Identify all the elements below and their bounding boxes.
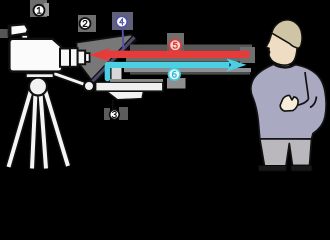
- camera body: [9, 39, 62, 72]
- monitor stand: [107, 91, 144, 100]
- monitor: [96, 82, 164, 91]
- viewfinder eyecup: [8, 25, 12, 38]
- leader line label 4: [122, 27, 125, 50]
- right shoe: [291, 165, 312, 171]
- viewfinder tube: [10, 24, 28, 36]
- elbow line: [310, 97, 317, 108]
- label 4: [116, 16, 127, 27]
- arm sleeve line: [305, 72, 309, 99]
- lens barrel: [78, 51, 86, 65]
- tripod head: [29, 78, 47, 96]
- knob: [84, 81, 94, 91]
- red light arrow (subject to camera), label 5 path: [89, 48, 249, 62]
- artifact gray at left edge near eyepiece: [0, 29, 8, 38]
- left shoe: [259, 166, 287, 172]
- tripod leg outer-left: [9, 90, 32, 167]
- artifact block near label 2: [78, 15, 96, 32]
- artifact block around label 6: [167, 78, 186, 89]
- tripod leg mid-right: [41, 93, 47, 169]
- tripod leg mid-left: [32, 93, 36, 169]
- artifact block near label 3 right: [119, 107, 128, 120]
- artifact haze band between arrows: [126, 58, 252, 62]
- mounting plate: [26, 74, 54, 78]
- hood (shroud): [77, 35, 137, 84]
- pants: [260, 139, 312, 166]
- viewfinder post: [22, 35, 29, 41]
- tripod leg outer-right: [45, 90, 68, 166]
- label 5: [169, 39, 181, 51]
- torso sweater: [251, 64, 326, 139]
- cyan light arrow (monitor to speaker), label 6 path: [105, 58, 247, 81]
- artifact block near label 4: [112, 12, 133, 30]
- person: [251, 20, 326, 171]
- artifact haze band above red arrow: [130, 45, 252, 51]
- label 2: [80, 18, 91, 29]
- artifact block near label 5: [167, 33, 184, 52]
- artifact gray strip above monitor: [110, 79, 163, 82]
- forearm underside: [296, 99, 309, 106]
- leader line label 3: [112, 100, 114, 110]
- face: [266, 33, 297, 65]
- artifact white block right of cyan bend: [112, 67, 122, 79]
- neck: [275, 58, 290, 69]
- artifact haze band below cyan arrow light: [124, 68, 251, 72]
- lens cap: [85, 53, 89, 62]
- support rod to monitor: [54, 74, 89, 87]
- collar line: [276, 64, 296, 67]
- artifact light strip right of label 1: [44, 3, 49, 16]
- beam splitter glass: [92, 37, 135, 82]
- label 3: [110, 110, 120, 120]
- artifact haze band below cyan arrow dark: [130, 72, 250, 74]
- label 6: [169, 69, 181, 81]
- artifact block at red arrow end: [240, 47, 255, 63]
- artifact block near label 3 left: [104, 108, 110, 120]
- hand: [280, 95, 298, 111]
- lens flange: [70, 48, 78, 67]
- hair: [272, 20, 302, 48]
- artifact block near label 1: [30, 0, 47, 17]
- label 1: [34, 5, 45, 16]
- lens mount: [60, 49, 71, 67]
